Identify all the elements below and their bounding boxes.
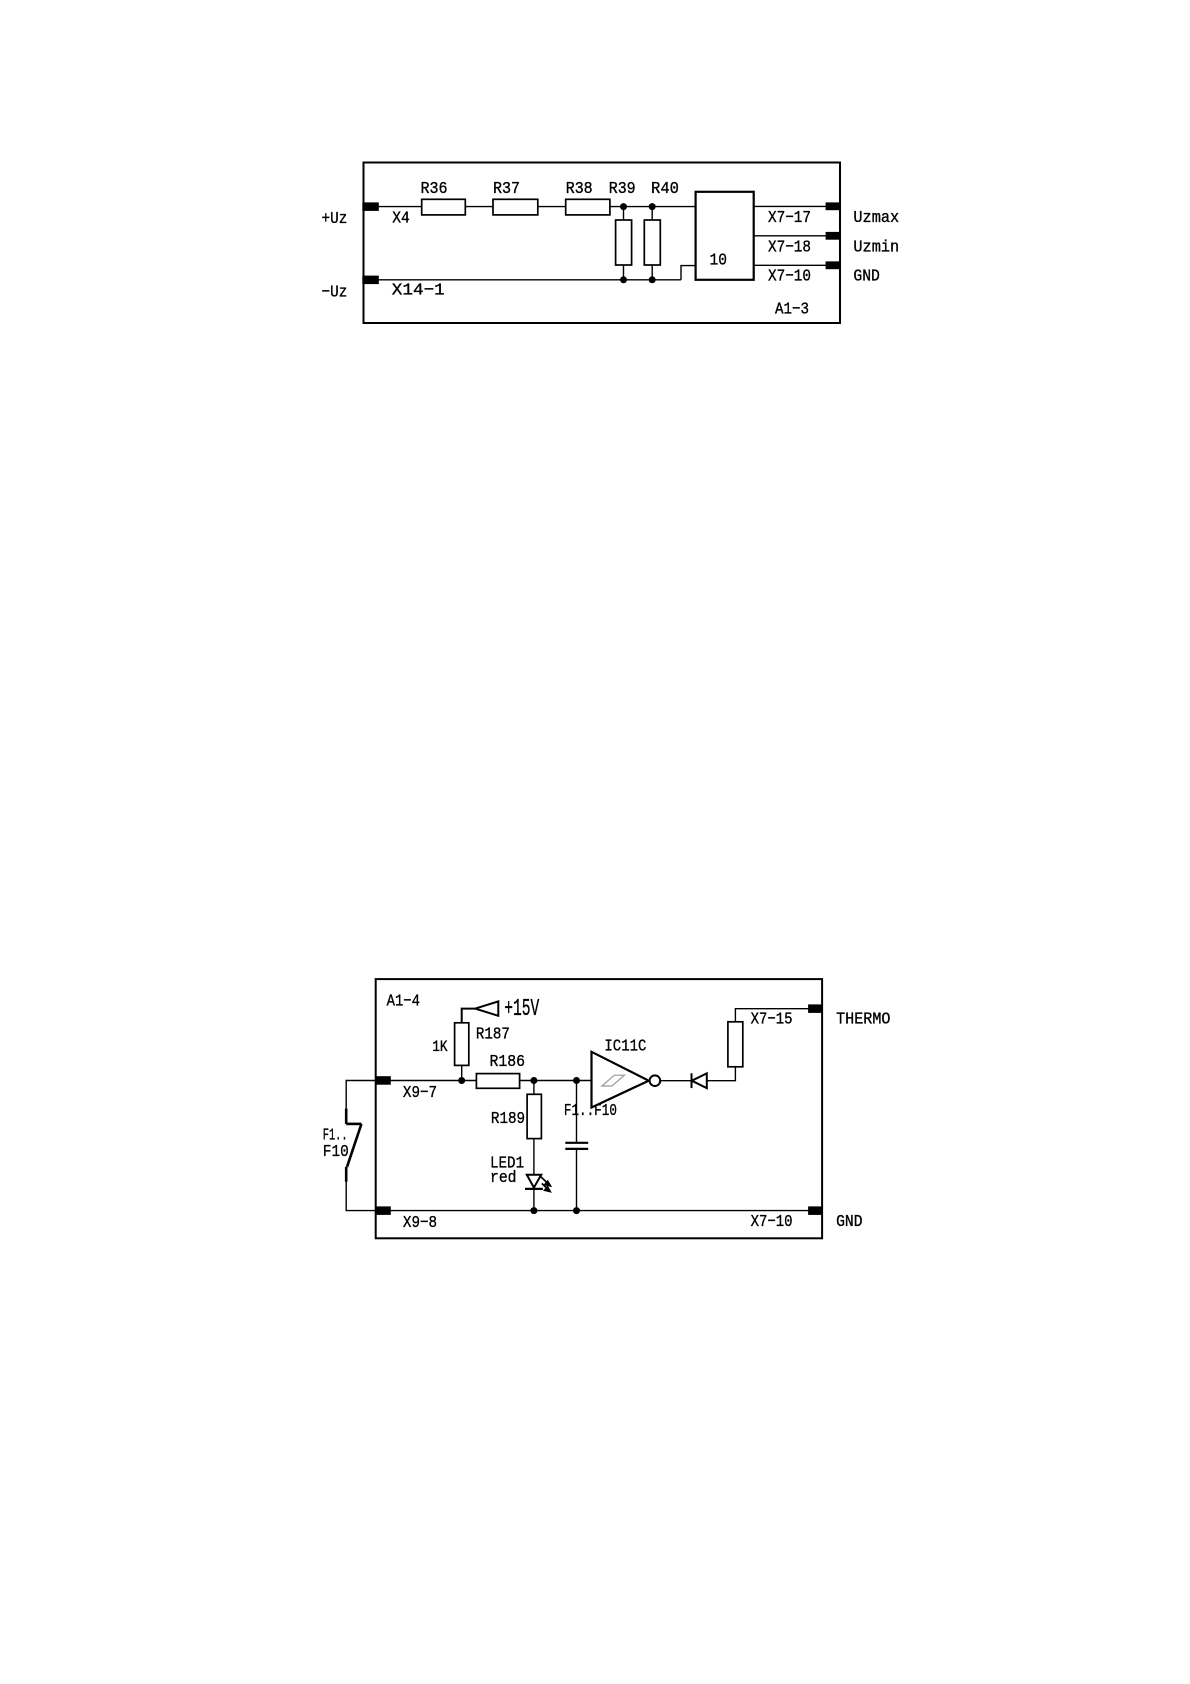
junction R39 top	[620, 203, 627, 210]
wire Uzmax	[754, 205, 826, 207]
wire GND	[754, 264, 826, 266]
junction capacitor top	[573, 1077, 580, 1084]
svg-text:THERMO: THERMO	[836, 1010, 890, 1029]
wire X9-8 bottom rail	[376, 1210, 822, 1212]
junction R40 bottom	[649, 276, 656, 283]
svg-text:F10: F10	[323, 1142, 349, 1161]
junction capacitor bottom	[573, 1207, 580, 1214]
svg-text:X14−1: X14−1	[392, 282, 445, 301]
junction R186/R189	[530, 1077, 537, 1084]
LED LED1	[525, 1175, 543, 1211]
svg-text:A1−4: A1−4	[387, 991, 420, 1011]
wire X7-15 resistor to pad	[735, 1009, 808, 1022]
switch F1..F10 blade	[347, 1124, 361, 1167]
svg-text:X4: X4	[392, 209, 409, 228]
svg-text:R189: R189	[491, 1109, 525, 1129]
wire Uzmin	[754, 235, 826, 237]
switch F1..F10 contact stub	[346, 1123, 361, 1126]
svg-text:R186: R186	[490, 1052, 525, 1071]
frame A1-3 border	[364, 163, 841, 324]
wire R187 bottom	[461, 1065, 463, 1080]
LED1 arrows	[541, 1177, 550, 1192]
svg-text:X9−8: X9−8	[403, 1213, 437, 1233]
wire IC11C output to diode	[660, 1080, 691, 1082]
resistor R186	[476, 1074, 519, 1089]
pad X9-8	[375, 1206, 391, 1215]
IC11C hysteresis glyph	[602, 1075, 625, 1086]
svg-text:red: red	[490, 1168, 516, 1187]
svg-text:R40: R40	[651, 178, 679, 198]
pad X7-17	[826, 202, 840, 210]
svg-text:R38: R38	[566, 179, 593, 198]
junction R187/R186	[458, 1077, 465, 1084]
svg-text:X9−7: X9−7	[403, 1083, 437, 1103]
pad X7-10	[826, 261, 840, 269]
svg-text:1K: 1K	[432, 1039, 448, 1057]
supply +15V symbol	[462, 1001, 499, 1022]
switch F1..F10 wire top	[346, 1081, 376, 1109]
box 10 (module)	[696, 192, 754, 280]
pad X7-18	[826, 232, 840, 240]
svg-text:R36: R36	[421, 179, 448, 198]
junction LED1 bottom	[530, 1207, 537, 1214]
wire R189 top	[533, 1081, 535, 1095]
capacitor C wire bottom	[576, 1149, 578, 1211]
IC11C output bubble	[650, 1075, 661, 1086]
op-amp IC11C (schmitt trigger)	[592, 1052, 649, 1108]
resistor R36	[422, 199, 466, 215]
resistor R39	[616, 220, 632, 265]
wire R38 to box 10	[610, 206, 696, 208]
pad X9-7	[375, 1076, 391, 1085]
pad +Uz (X4)	[362, 202, 379, 211]
pad -Uz (X14-1)	[362, 276, 379, 285]
svg-text:−Uz: −Uz	[322, 282, 348, 301]
junction R39 bottom	[620, 276, 627, 283]
svg-text:R187: R187	[476, 1024, 510, 1044]
switch F1..F10 wire bottom	[346, 1182, 376, 1211]
svg-text:X7−15: X7−15	[751, 1009, 793, 1029]
diode D1	[692, 1073, 707, 1088]
wire R37-R38	[538, 206, 566, 208]
svg-text:X7−10: X7−10	[768, 266, 811, 285]
resistor R189	[527, 1094, 541, 1138]
svg-text:Uzmax: Uzmax	[853, 208, 899, 227]
wire riser to box 10 GND pin	[681, 266, 696, 280]
pad THERMO (X7-15)	[808, 1004, 822, 1013]
wire X9-7 rail	[376, 1080, 592, 1082]
svg-text:Uzmin: Uzmin	[853, 238, 899, 257]
wire -Uz bottom rail	[364, 279, 681, 281]
svg-text:X7−10: X7−10	[751, 1212, 793, 1232]
svg-text:IC11C: IC11C	[604, 1036, 646, 1056]
svg-text:+15V: +15V	[504, 996, 539, 1024]
svg-text:X7−17: X7−17	[768, 208, 811, 227]
wire +Uz top rail	[364, 206, 422, 208]
svg-text:A1−3: A1−3	[775, 299, 809, 319]
frame A1-4 border	[376, 979, 822, 1238]
wire R189 to LED1	[533, 1139, 535, 1175]
wire diode to X7-15 resistor	[707, 1067, 736, 1081]
svg-text:R39: R39	[609, 179, 636, 198]
wire R40 vertical	[651, 207, 653, 280]
resistor X7-15 branch	[728, 1022, 743, 1067]
wire R36-R37	[465, 206, 493, 208]
resistor R37	[493, 199, 538, 215]
resistor R40	[644, 220, 660, 265]
resistor R38	[566, 199, 610, 215]
svg-text:+Uz: +Uz	[322, 209, 348, 228]
junction R40 top	[649, 203, 656, 210]
svg-text:X7−18: X7−18	[768, 237, 811, 256]
capacitor C (F1..F10) wire top	[576, 1081, 578, 1143]
wire R39 vertical	[623, 207, 625, 280]
switch F1..F10 terminal top	[345, 1109, 348, 1124]
pad GND (X7-10)	[808, 1206, 822, 1215]
svg-text:10: 10	[710, 251, 727, 270]
svg-text:GND: GND	[836, 1212, 862, 1231]
svg-text:R37: R37	[493, 179, 520, 198]
capacitor C plates	[565, 1143, 588, 1149]
switch F1..F10 terminal bottom	[345, 1167, 348, 1182]
svg-text:GND: GND	[853, 266, 879, 285]
resistor R187	[455, 1023, 469, 1066]
